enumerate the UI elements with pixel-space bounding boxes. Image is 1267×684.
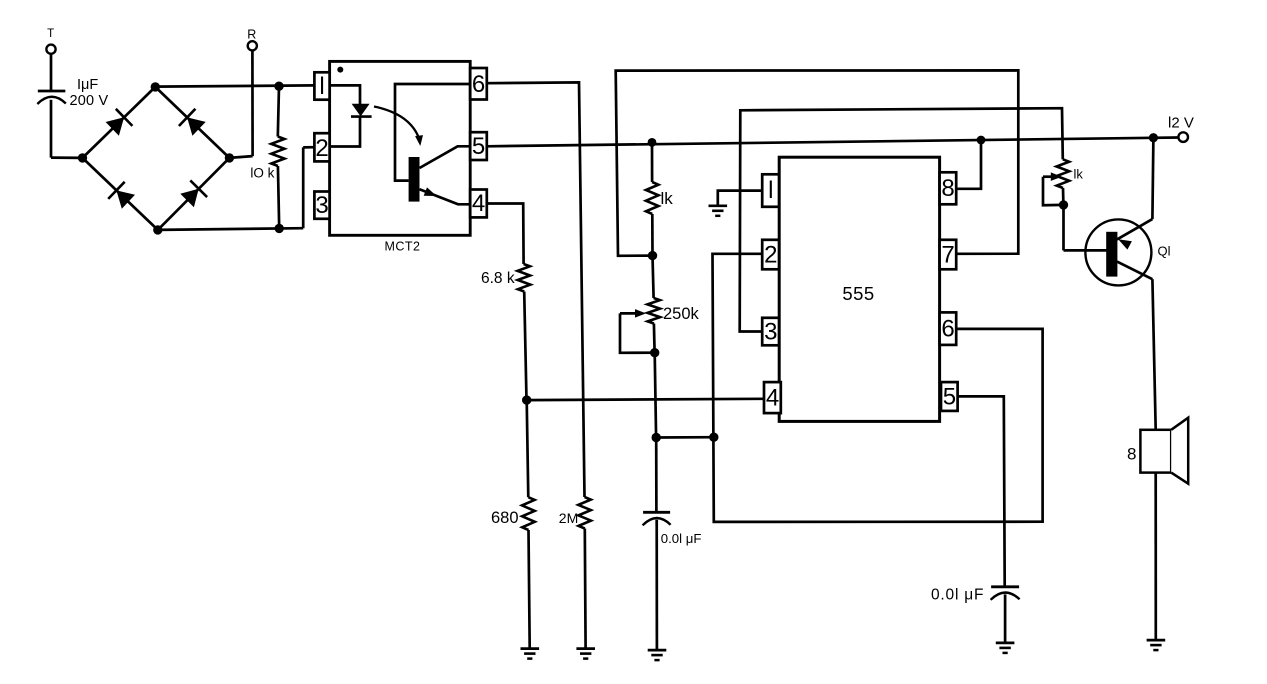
svg-text:4: 4	[472, 190, 485, 217]
svg-text:l2 V: l2 V	[1168, 115, 1194, 132]
svg-text:Ql: Ql	[1158, 244, 1171, 259]
svg-text:0.0l μF: 0.0l μF	[661, 531, 702, 546]
svg-text:IμF: IμF	[77, 77, 98, 93]
svg-text:555: 555	[842, 283, 874, 304]
svg-text:R: R	[247, 28, 256, 42]
svg-text:0.0l μF: 0.0l μF	[931, 587, 984, 604]
svg-text:lO k: lO k	[250, 165, 274, 180]
svg-text:3: 3	[764, 319, 777, 346]
svg-text:2M: 2M	[559, 510, 578, 526]
svg-text:l: l	[768, 177, 773, 204]
svg-text:MCT2: MCT2	[384, 240, 420, 254]
svg-text:5: 5	[472, 133, 485, 160]
svg-text:7: 7	[941, 242, 954, 269]
svg-text:6.8 k: 6.8 k	[481, 270, 515, 287]
svg-text:200 V: 200 V	[70, 93, 109, 109]
svg-text:l: l	[319, 73, 324, 100]
svg-text:250k: 250k	[663, 305, 700, 323]
svg-text:4: 4	[766, 385, 779, 412]
svg-text:lk: lk	[661, 189, 674, 208]
svg-text:3: 3	[315, 192, 328, 219]
svg-text:6: 6	[472, 71, 485, 98]
svg-text:6: 6	[941, 316, 954, 343]
svg-text:lk: lk	[1074, 167, 1084, 182]
svg-text:680: 680	[491, 509, 519, 527]
svg-text:8: 8	[941, 175, 954, 202]
svg-text:T: T	[47, 28, 54, 40]
svg-text:8: 8	[1127, 445, 1136, 464]
svg-text:5: 5	[943, 384, 956, 411]
svg-text:2: 2	[764, 242, 777, 269]
svg-text:2: 2	[315, 135, 328, 162]
